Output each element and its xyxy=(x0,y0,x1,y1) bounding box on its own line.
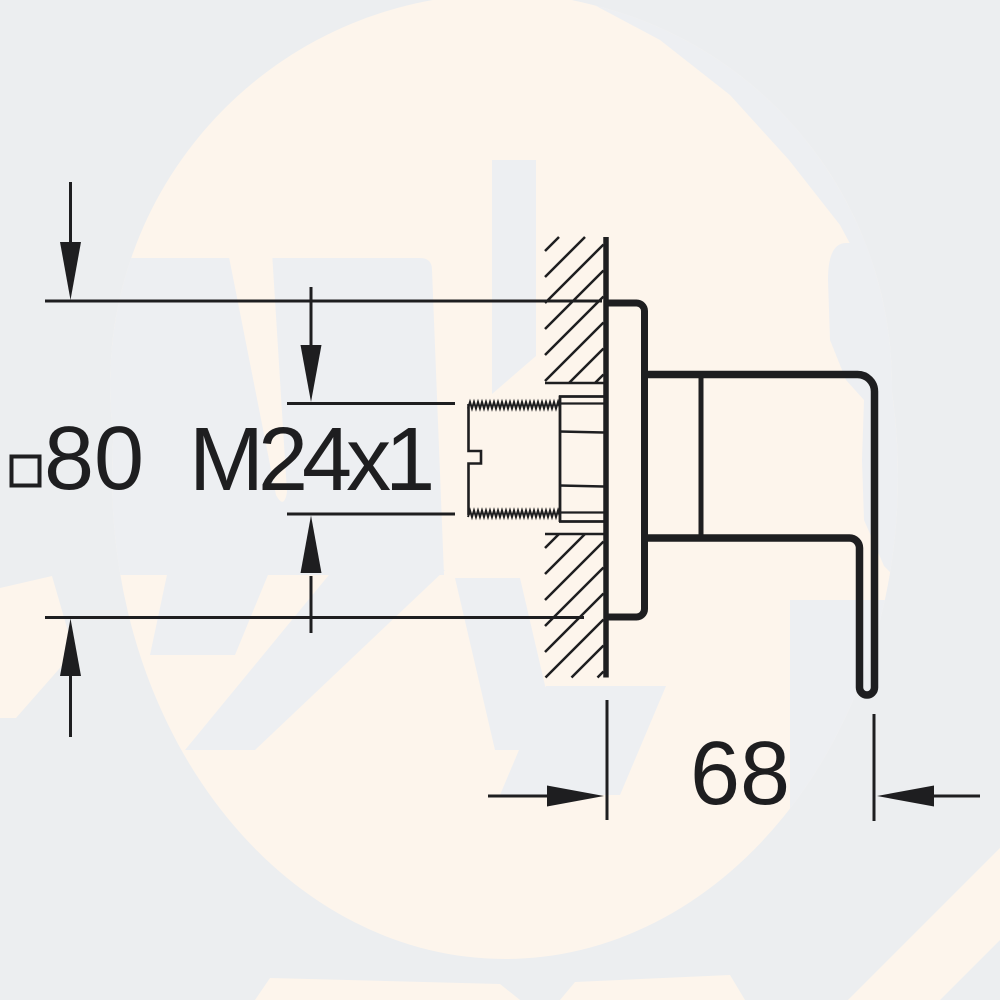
bottom letter fragments xyxy=(255,978,520,1000)
arrow M24 top xyxy=(301,287,322,402)
dimension line M24 top xyxy=(287,402,455,405)
pipe end edge with slot notch xyxy=(469,404,482,515)
escutcheon plate xyxy=(605,303,645,617)
thread root line upper inside nut xyxy=(560,402,604,404)
svg-text:M24x1: M24x1 xyxy=(189,410,431,510)
dimension line 80 bottom xyxy=(45,616,584,619)
S tail stroke outside disk xyxy=(848,848,1000,1000)
arrow M24 bottom xyxy=(301,516,322,634)
dimension 68 left arrow xyxy=(488,786,604,807)
watermark stroke outside disk, lower left xyxy=(0,576,74,718)
wall hatching xyxy=(545,237,604,678)
valve body and handle top edge xyxy=(648,375,875,688)
letter M body xyxy=(82,258,444,575)
hex nut top edge xyxy=(559,395,604,398)
letter t stem top xyxy=(492,160,536,394)
arrow 80 bottom xyxy=(60,619,81,738)
svg-text:68: 68 xyxy=(690,724,790,824)
arrow 80 top xyxy=(60,182,81,300)
svg-text:80: 80 xyxy=(44,409,144,509)
wall hole bottom edge xyxy=(545,533,604,536)
threaded pipe top thread xyxy=(468,402,560,409)
dimension 68 right arrow xyxy=(877,786,980,807)
watermark cream disk xyxy=(110,0,892,776)
letter M left leg xyxy=(150,570,270,655)
letter M right leg xyxy=(185,570,445,750)
label square symbol xyxy=(12,457,40,486)
wall face line xyxy=(603,237,609,678)
valve body and handle bottom edge xyxy=(648,538,860,548)
extension line below wall xyxy=(606,700,609,820)
letter t crossbar patch xyxy=(455,578,560,750)
hex nut left edge xyxy=(559,396,562,523)
S middle mass xyxy=(828,243,1000,612)
hex nut facet line upper xyxy=(560,432,604,433)
M vee counter xyxy=(228,252,287,502)
threaded pipe bottom thread xyxy=(468,511,560,518)
valve body joint line xyxy=(699,375,704,539)
wall hole top edge xyxy=(545,382,604,385)
hex nut facet line lower xyxy=(560,486,604,487)
letter t bottom bar xyxy=(500,686,666,795)
S bottom block xyxy=(790,600,1000,1000)
extension line below handle xyxy=(873,714,876,821)
dimension line 80 top xyxy=(45,300,602,303)
thread root line lower inside nut xyxy=(560,511,604,513)
hex nut bottom edge xyxy=(559,520,604,523)
dimension line M24 bottom xyxy=(287,513,455,516)
handle lever bottom U xyxy=(860,548,875,695)
S upper right boundary wedge xyxy=(585,0,940,266)
